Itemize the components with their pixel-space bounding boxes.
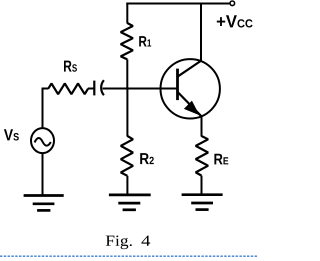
label +VCC xyxy=(217,15,253,27)
source VS (AC source circle with sine) xyxy=(31,128,54,153)
wire rail to R1 xyxy=(126,3,128,24)
ground (below R2) xyxy=(109,195,151,210)
wire R1 to base node xyxy=(126,59,128,89)
resistor RS xyxy=(48,84,88,95)
caption Fig. 4 xyxy=(106,236,150,250)
wire R2 to ground xyxy=(126,176,128,196)
wire VS to RS (corner) xyxy=(43,89,49,128)
wire VS to ground xyxy=(42,153,44,196)
label R1 xyxy=(139,36,151,46)
transistor Q1 (NPN) xyxy=(161,59,220,118)
wire R2 from base node xyxy=(126,88,128,137)
capacitor C1 (coupling, curved plate) xyxy=(94,80,104,95)
wire capacitor to base xyxy=(103,88,178,90)
label R2 xyxy=(140,153,154,164)
terminal +VCC (open circle) xyxy=(230,1,235,6)
resistor RE xyxy=(196,136,208,176)
label VS xyxy=(4,129,19,140)
label RE xyxy=(214,154,228,165)
ground (below VS) xyxy=(24,196,64,211)
resistor R2 xyxy=(121,136,133,176)
label RS xyxy=(64,61,77,72)
text boundary dashed line xyxy=(0,255,257,257)
wire emitter to RE xyxy=(201,116,203,137)
wire RE to ground xyxy=(201,176,203,195)
wire RS to capacitor xyxy=(88,88,94,90)
wire collector to rail xyxy=(200,4,202,61)
ground (below RE) xyxy=(182,195,223,210)
resistor R1 xyxy=(121,23,133,59)
wire top rail (VCC bus) xyxy=(126,3,230,5)
